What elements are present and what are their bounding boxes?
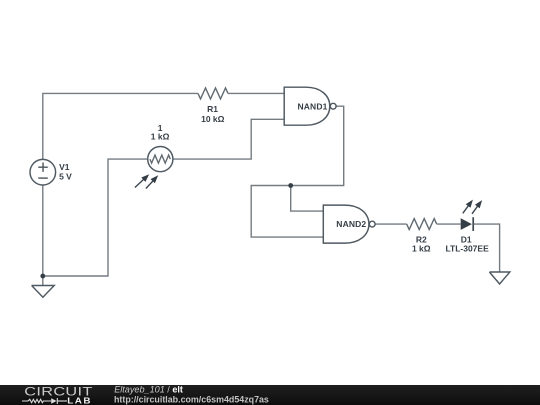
svg-text:http://circuitlab.com/c6sm4d54: http://circuitlab.com/c6sm4d54zq7as xyxy=(114,395,269,405)
svg-text:Eltayeb_101 / elt: Eltayeb_101 / elt xyxy=(114,385,183,395)
svg-text:LAB: LAB xyxy=(67,396,92,405)
